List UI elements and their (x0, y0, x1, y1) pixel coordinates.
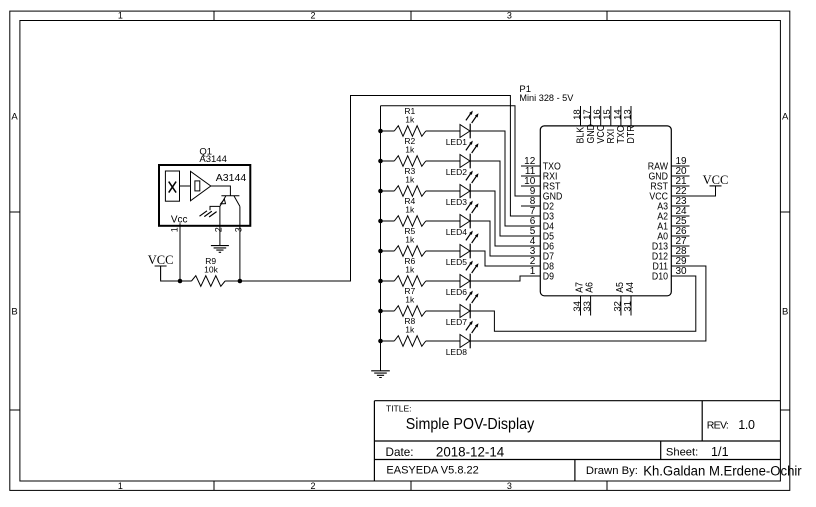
P1 left pin 11 RXI (521, 166, 557, 182)
wire emitter to chassis ground (210, 206, 220, 210)
P1 left pin 8 D2 (521, 196, 554, 212)
svg-text:LED2: LED2 (446, 167, 468, 177)
P1 left pin 9 GND (521, 186, 563, 202)
svg-text:A: A (782, 111, 789, 122)
svg-text:Kh.Galdan M.Erdene-Ochir: Kh.Galdan M.Erdene-Ochir (643, 463, 802, 478)
P1 right pin 28 D12 (652, 246, 690, 262)
svg-text:1k: 1k (405, 174, 415, 184)
node bus row 2 junction (378, 159, 383, 164)
svg-text:1: 1 (530, 266, 536, 277)
P1 right pin 27 D13 (652, 236, 690, 252)
title block TITLE text (386, 403, 534, 433)
svg-text:1: 1 (170, 227, 180, 232)
ground symbol at bus bottom (371, 371, 390, 378)
node bus row 5 junction (378, 249, 383, 254)
P1 top pin 16 VCC (592, 106, 606, 144)
P1 right pin 23 A3 (657, 196, 689, 212)
svg-text:VCC: VCC (148, 253, 174, 267)
svg-text:LED1: LED1 (446, 137, 468, 147)
LED3 diode (446, 171, 479, 207)
title block EASYEDA (386, 464, 478, 476)
P1 left pin 1 D9 (521, 266, 554, 282)
svg-text:Simple POV-Display: Simple POV-Display (406, 416, 534, 433)
P1 left pin 10 RST (521, 176, 561, 192)
node bus row 3 junction (378, 189, 383, 194)
LED2 diode (446, 141, 479, 177)
svg-text:A3144: A3144 (216, 172, 247, 184)
LED1 diode (446, 111, 479, 147)
svg-text:13: 13 (622, 109, 633, 120)
svg-text:1/1: 1/1 (711, 445, 729, 459)
resistor R2 1k (381, 136, 461, 166)
resistor R3 1k (381, 166, 461, 196)
pin 3 number (233, 227, 243, 232)
P1 left pin 3 D7 (521, 246, 554, 262)
svg-text:1k: 1k (405, 294, 415, 304)
svg-text:1k: 1k (405, 234, 415, 244)
wire LED1 to P1 D4 (470, 131, 521, 226)
svg-text:LED4: LED4 (446, 227, 468, 237)
svg-text:A4: A4 (623, 282, 635, 293)
svg-text:1: 1 (118, 481, 123, 491)
svg-text:A6: A6 (583, 282, 595, 293)
P1 left pin 7 D3 (521, 206, 554, 222)
node bus row 4 junction (378, 219, 383, 224)
wire LED8 to P1 D11 (470, 266, 706, 341)
svg-text:Mini 328 - 5V: Mini 328 - 5V (519, 93, 574, 104)
P1 top pin 13 DTR (622, 106, 636, 144)
resistor R9 10k (180, 256, 240, 286)
svg-text:2: 2 (310, 481, 315, 491)
P1 left pin 6 D4 (521, 216, 554, 232)
LED5 diode (446, 231, 479, 267)
svg-text:3: 3 (507, 11, 512, 21)
P1 bottom pin 31 A4 (622, 282, 635, 315)
wire LED6 to P1 D9 (470, 276, 521, 281)
svg-text:DTR: DTR (625, 125, 637, 143)
svg-text:1.0: 1.0 (738, 418, 755, 432)
LED8 diode (446, 321, 479, 357)
svg-text:2: 2 (310, 11, 315, 21)
resistor R7 1k (381, 286, 461, 316)
svg-text:31: 31 (622, 301, 633, 312)
svg-text:LED5: LED5 (446, 257, 468, 267)
svg-text:1k: 1k (405, 204, 415, 214)
svg-text:1k: 1k (405, 114, 415, 124)
wire LED4 to P1 D7 (470, 221, 521, 256)
P1 bottom pin 32 A5 (612, 282, 625, 315)
P1 right pin 25 A1 (657, 216, 689, 232)
node bus row 8 junction (378, 339, 383, 344)
svg-text:30: 30 (676, 266, 688, 277)
hall element X box (165, 171, 179, 201)
svg-text:EASYEDA V5.8.22: EASYEDA V5.8.22 (386, 464, 478, 476)
svg-text:33: 33 (582, 301, 593, 312)
P1 top pin 18 BLK (572, 106, 586, 144)
svg-text:Date:: Date: (386, 446, 414, 459)
pin 1 number (170, 227, 180, 232)
wire amp output to transistor base (211, 186, 231, 196)
ground symbol below Q1 pin2 (211, 246, 229, 253)
transistor Q internal NPN (220, 196, 240, 207)
LED7 diode (446, 291, 479, 327)
wire hall element to amp (180, 185, 191, 187)
hall sensor Q1 body box (159, 165, 250, 226)
wire Q1 pin1 to node (179, 223, 181, 281)
title block Drawn By (586, 463, 802, 478)
P1 right pin 26 A0 (657, 226, 689, 242)
P1 top pin 14 TXO (612, 106, 626, 144)
node bus row 1 junction (378, 129, 383, 134)
wire LED7 to P1 D10 (470, 276, 696, 331)
svg-text:Sheet:: Sheet: (666, 447, 698, 459)
wire Q1 pin2 emitter to ground (219, 206, 221, 245)
svg-text:Drawn By:: Drawn By: (586, 465, 638, 477)
pin 2 number (213, 227, 223, 232)
svg-text:B: B (11, 307, 17, 318)
svg-text:LED7: LED7 (446, 317, 468, 327)
LED4 diode (446, 201, 479, 237)
P1 top pin 17 GND (582, 106, 596, 144)
svg-text:A: A (11, 111, 18, 122)
svg-text:1k: 1k (405, 324, 415, 334)
svg-text:1: 1 (118, 11, 123, 21)
power flag VCC right (703, 173, 729, 187)
wire bus top to P1 pin9 GND (381, 106, 522, 196)
svg-text:TITLE:: TITLE: (386, 403, 412, 413)
P1 right pin 21 RST (650, 176, 689, 192)
wire Q1 pin3 collector to node (239, 206, 241, 281)
label Q1 designator (199, 146, 226, 165)
wire LED bus vertical (380, 106, 382, 371)
P1 left pin 4 D6 (521, 236, 554, 252)
P1 left pin 12 TXO (521, 156, 561, 172)
svg-text:D10: D10 (652, 270, 668, 282)
P1 right pin 19 RAW (648, 156, 690, 172)
resistor R1 1k (381, 106, 461, 136)
resistor R4 1k (381, 196, 461, 226)
connector P1 body (540, 126, 671, 296)
P1 bottom pin 33 A6 (582, 282, 595, 315)
svg-text:REV:: REV: (707, 419, 729, 431)
wire VCC to node A (161, 280, 180, 282)
svg-text:2018-12-14: 2018-12-14 (436, 444, 505, 459)
chassis ground internal (200, 211, 217, 217)
P1 left pin 5 D5 (521, 226, 554, 242)
wire LED3 to P1 D6 (470, 191, 521, 246)
wire R9 Q1 output to P1 pin7 D3 (240, 96, 521, 282)
svg-text:B: B (782, 307, 788, 318)
resistor R8 1k (381, 316, 461, 346)
P1 bottom pin 34 A7 (572, 282, 585, 315)
P1 right pin 24 A2 (657, 206, 689, 222)
svg-text:1k: 1k (405, 144, 415, 154)
svg-text:3: 3 (233, 227, 243, 232)
P1 right pin 20 GND (648, 166, 689, 182)
svg-text:LED3: LED3 (446, 197, 468, 207)
power flag VCC left (148, 253, 174, 281)
P1 top pin 15 RXI (602, 106, 616, 144)
svg-text:10k: 10k (204, 265, 218, 275)
svg-text:VCC: VCC (703, 173, 729, 187)
label Vcc pin name (171, 215, 188, 226)
op-amp triangle U1 internal (191, 171, 211, 200)
P1 left pin 2 D8 (521, 256, 554, 272)
title block frame (374, 401, 780, 481)
wire P1 pin22 to VCC (690, 186, 716, 196)
node B junction (238, 279, 243, 284)
wire LED5 to P1 D8 (470, 251, 521, 266)
P1 right pin 29 D11 (653, 256, 690, 272)
P1 right pin 30 D10 (652, 266, 690, 282)
label P1 designator (519, 84, 574, 104)
title block Date (386, 444, 505, 459)
title block REV (707, 418, 755, 432)
wire LED2 to P1 D5 (470, 161, 521, 236)
LED6 diode (446, 261, 479, 297)
P1 right pin 22 VCC (649, 186, 689, 202)
node A junction (178, 279, 183, 284)
svg-text:2: 2 (213, 227, 223, 232)
title block Sheet (666, 445, 729, 459)
svg-text:LED6: LED6 (446, 287, 468, 297)
svg-text:3: 3 (507, 481, 512, 491)
svg-text:D9: D9 (543, 270, 554, 282)
svg-text:A3144: A3144 (199, 154, 226, 165)
svg-text:1k: 1k (405, 264, 415, 274)
node bus row 6 junction (378, 279, 383, 284)
node bus row 7 junction (378, 309, 383, 314)
resistor R6 1k (381, 256, 461, 286)
svg-text:LED8: LED8 (446, 347, 468, 357)
label A3144 internal (216, 172, 247, 184)
resistor R5 1k (381, 226, 461, 256)
svg-text:Vcc: Vcc (171, 215, 188, 226)
